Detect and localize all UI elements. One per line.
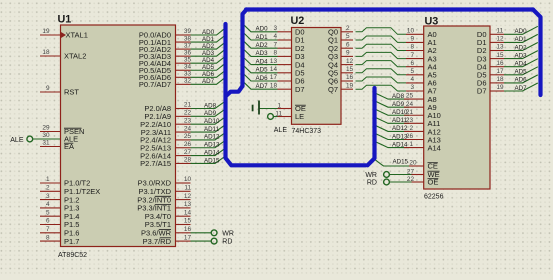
wire net AD10 from U1 P2.2 to bus [191,117,226,125]
wire U2 Q7 to U3 A7 [356,85,407,91]
svg-text:AD4: AD4 [256,58,269,65]
wire net AD11 from bus to U3 A11 [376,117,409,124]
bus segment right vertical at U3 data pins [533,10,541,96]
U3 pin 11 D0 [477,28,504,40]
U3 pin 4 A6 [406,76,437,88]
svg-text:4: 4 [410,76,414,83]
svg-text:14: 14 [184,209,192,216]
U3 pin 9 A1 [406,36,437,48]
U3 pin 6 A4 [406,60,437,72]
U2 pin 2 Q0 [328,25,353,37]
terminal ALE (node ALE) [10,136,32,144]
svg-text:18: 18 [42,49,50,56]
svg-text:5: 5 [46,209,50,216]
wire net AD6 from bus to U2 D6 [244,75,277,82]
U3 pin 1 A14 [404,141,441,152]
wire net AD0 from bus to U2 D0 [244,25,277,32]
svg-text:9: 9 [46,85,50,92]
U3 pin 12 D1 [477,36,504,48]
U1 pin 13 P3.3/INT1 [137,201,191,213]
U1 pin 35 P0.4/AD4 [139,56,192,68]
U1 pin 38 P0.1/AD1 [139,35,192,47]
U3 pin 20 CE [409,159,438,170]
svg-text:RD: RD [367,180,377,187]
U1 pin 10 P3.0/RXD [138,176,192,188]
wire net AD15 from U1 P2.7 to bus [191,156,226,164]
svg-text:5: 5 [346,33,350,40]
svg-text:7: 7 [273,41,277,48]
svg-text:62256: 62256 [424,194,444,201]
wire net AD0 from U1 P0.0 to bus [191,28,226,36]
U1 pin 4 P1.3 [40,201,79,213]
wire net AD13 from U1 P2.5 to bus [191,140,226,148]
U1 pin 37 P0.2/AD2 [139,42,192,54]
wire net AD5 from U1 P0.5 to bus [191,63,226,71]
svg-text:P0.7/AD7: P0.7/AD7 [139,80,171,89]
U3 part value 62256 [424,194,444,201]
U1 pin 1 P1.0/T2 [40,176,90,188]
wire net AD1 from bus to U2 D1 [244,34,277,41]
svg-text:AD6: AD6 [202,71,215,78]
svg-text:16: 16 [184,226,192,233]
svg-text:AD9: AD9 [204,110,217,117]
svg-text:25: 25 [406,93,414,100]
bus segment jog and lower left vertical at U1 P2 [227,86,243,96]
svg-text:AD0: AD0 [202,29,215,36]
U2 pin 6 Q2 [328,41,353,53]
wire net AD10 from bus to U3 A10 [376,109,409,116]
wire WR from U1 P3.6 to terminal [191,232,212,234]
svg-text:A14: A14 [428,143,441,152]
svg-text:21: 21 [406,109,414,116]
svg-text:30: 30 [42,132,50,139]
svg-text:9: 9 [346,50,350,57]
wire net AD4 from U3 D4 to bus [504,59,538,68]
U1 pin 18 XTAL2 [40,49,86,61]
U1 pin 22 P2.1/A9 [144,110,191,122]
U1 pin 5 P1.4 [40,209,79,221]
wire net AD4 from bus to U2 D4 [244,58,277,65]
U2 pin 14 D5 [270,66,305,78]
svg-text:P2.7/A15: P2.7/A15 [140,159,171,168]
svg-text:12: 12 [497,36,505,43]
svg-text:15: 15 [184,218,192,225]
wire RD terminal to U3 OE pin [389,181,411,183]
U3 pin 24 A9 [404,101,437,112]
svg-text:29: 29 [42,125,50,132]
svg-text:AD1: AD1 [256,34,269,41]
svg-text:3: 3 [273,25,277,32]
svg-text:38: 38 [184,35,192,42]
wire net AD5 from bus to U2 D5 [244,66,277,73]
svg-text:AD2: AD2 [515,44,528,51]
wire net AD3 from U3 D3 to bus [504,51,538,60]
svg-text:U1: U1 [58,14,72,26]
wire net AD6 from U3 D6 to bus [504,75,538,84]
svg-text:34: 34 [184,63,192,70]
svg-text:AD7: AD7 [515,85,528,92]
svg-text:AD1: AD1 [202,36,215,43]
svg-text:13: 13 [270,58,278,65]
U1 pin 34 P0.5/AD5 [139,63,192,75]
svg-text:AD10: AD10 [204,118,220,125]
wire net AD6 from U1 P0.6 to bus [191,70,226,78]
terminal RD at U3 OE [367,179,390,187]
svg-text:17: 17 [497,68,505,75]
svg-text:12: 12 [184,193,192,200]
IC U2 74HC373 body [292,28,342,125]
svg-text:1: 1 [46,176,50,183]
wire RD from U1 P3.7 to terminal [191,240,212,242]
svg-text:AD15: AD15 [393,159,409,166]
svg-text:RD: RD [222,239,232,246]
svg-text:AD12: AD12 [204,134,220,141]
wire net AD14 from bus to U3 A14 [376,141,409,148]
svg-text:22: 22 [407,176,415,183]
U2 pin 5 Q1 [328,33,353,45]
U2 pin 1 OE [277,103,305,114]
U1 pin 6 P1.5 [40,218,79,230]
wire net AD4 from U1 P0.4 to bus [191,56,226,64]
svg-text:AD4: AD4 [202,57,215,64]
svg-text:WR: WR [365,172,377,179]
U2 pin 17 D6 [270,74,305,86]
svg-text:25: 25 [184,133,192,140]
svg-text:23: 23 [184,117,192,124]
svg-text:19: 19 [42,28,50,35]
U2 pin 9 Q3 [328,50,353,62]
svg-text:18: 18 [270,82,278,89]
U3 reference label [425,16,439,28]
svg-text:AD3: AD3 [202,50,215,57]
svg-text:6: 6 [346,41,350,48]
svg-text:6: 6 [410,60,414,67]
U1 pin 24 P2.3/A11 [141,125,192,137]
wire net AD14 from U1 P2.6 to bus [191,148,226,156]
wire U2 Q3 to U3 A3 [356,52,407,58]
svg-text:7: 7 [46,226,50,233]
wire net AD8 from bus to U3 A8 [376,93,409,100]
wire U2 Q1 to U3 A1 [356,36,407,42]
svg-text:37: 37 [184,42,192,49]
svg-text:17: 17 [184,234,192,241]
svg-text:AD8: AD8 [392,93,405,100]
U3 pin 16 D4 [477,60,504,72]
svg-text:AD5: AD5 [515,69,528,76]
svg-text:AD14: AD14 [204,149,220,156]
wire net AD8 from U1 P2.0 to bus [191,101,226,109]
svg-text:8: 8 [46,234,50,241]
U3 pin 26 A13 [404,133,441,144]
U2 pin 7 D2 [273,41,304,53]
svg-text:14: 14 [270,66,278,73]
wire net AD13 from bus to U3 A13 [376,133,409,140]
wire U2 Q6 to U3 A6 [356,77,407,83]
svg-text:39: 39 [184,28,192,35]
U1 pin 11 P3.1/TXD [138,185,191,197]
U1 pin 17 P3.7/RD [143,234,192,246]
IC U3 62256 body [424,26,490,189]
U1 pin 28 P2.7/A15 [140,157,191,169]
svg-text:AD8: AD8 [204,102,217,109]
svg-text:AD4: AD4 [515,61,528,68]
U3 pin 10 A0 [406,28,437,40]
wire net AD9 from U1 P2.1 to bus [191,109,226,117]
U1 pin 15 P3.5/T1 [145,218,192,230]
svg-text:26: 26 [184,141,192,148]
svg-text:24: 24 [406,101,414,108]
svg-text:6: 6 [46,218,50,225]
U3 pin 19 D7 [477,84,504,96]
svg-text:ALE: ALE [10,137,24,144]
svg-text:RST: RST [64,88,79,97]
U1 pin 8 P1.7 [40,234,79,246]
U3 pin 2 A12 [404,125,441,136]
svg-text:27: 27 [407,168,415,175]
wire net AD1 from U1 P0.1 to bus [191,35,226,43]
U2 pin 18 D7 [270,82,305,94]
wire net AD12 from bus to U3 A12 [376,125,409,132]
wire net AD7 from U3 D7 to bus [504,83,538,92]
wire net AD5 from U3 D5 to bus [504,67,538,76]
svg-text:Q7: Q7 [328,85,338,94]
wire net AD9 from bus to U3 A9 [376,101,409,108]
U1 pin 21 P2.0/A8 [144,102,191,114]
U2 part value 74HC373 [292,128,322,135]
wire U2 Q0 to U3 A0 [356,28,407,35]
U1 pin 27 P2.6/A14 [140,149,191,161]
svg-text:4: 4 [46,201,50,208]
U2 pin 15 Q5 [328,66,354,78]
svg-text:AD0: AD0 [256,26,269,33]
svg-text:2: 2 [346,25,350,32]
svg-text:AD13: AD13 [204,142,220,149]
svg-text:8: 8 [273,50,277,57]
U1 pin 30 ALE [42,132,78,144]
svg-text:21: 21 [184,102,192,109]
U3 pin 8 A2 [406,44,437,56]
U3 pin 15 D3 [477,52,504,64]
svg-text:15: 15 [497,52,505,59]
U2 pin 19 Q7 [328,82,354,94]
svg-text:7: 7 [410,52,414,59]
U3 pin 21 A10 [404,109,441,120]
svg-text:20: 20 [409,159,417,166]
svg-text:AD3: AD3 [515,52,528,59]
U2 pin 16 Q6 [328,74,354,86]
svg-text:U2: U2 [291,15,305,27]
svg-text:D7: D7 [477,87,487,96]
svg-text:1: 1 [409,141,413,148]
svg-text:D7: D7 [295,85,305,94]
U1 pin 12 P3.2/INT0 [137,193,191,205]
svg-text:AD2: AD2 [256,42,269,49]
svg-text:16: 16 [497,60,505,67]
wire net AD2 from U3 D2 to bus [504,43,538,52]
svg-text:11: 11 [184,185,191,192]
U3 pin 25 A8 [404,93,437,104]
svg-text:11: 11 [497,28,504,35]
wire net AD3 from U1 P0.3 to bus [191,49,226,57]
svg-text:AD1: AD1 [515,36,528,43]
svg-text:XTAL2: XTAL2 [64,52,86,61]
svg-text:1: 1 [277,103,281,110]
svg-text:12: 12 [346,58,354,65]
U2 pin 3 D0 [273,25,304,37]
svg-text:15: 15 [346,66,354,73]
terminal ALE at U2 LE [268,114,288,134]
wire net AD1 from U3 D1 to bus [504,34,538,43]
U1 pin 16 P3.6/WR [141,226,191,238]
svg-text:32: 32 [184,78,192,85]
svg-text:24: 24 [184,125,192,132]
U1 pin 23 P2.2/A10 [140,117,191,128]
U3 pin 17 D5 [477,68,504,80]
svg-text:AD11: AD11 [204,126,220,133]
U1 pin 14 P3.4/T0 [145,209,192,221]
wire U2 Q5 to U3 A5 [356,69,407,75]
wire net AD0 from U3 D0 to bus [504,26,538,35]
U3 pin 27 WE [407,168,440,179]
svg-text:19: 19 [497,84,505,91]
bus segment left vertical at U1 P0 [243,10,247,87]
svg-text:2: 2 [46,185,50,192]
U3 pin 3 A7 [406,84,437,96]
svg-text:AD0: AD0 [515,28,528,35]
wire U2 Q2 to U3 A2 [356,44,407,50]
U2 pin 12 Q4 [328,58,354,70]
svg-text:8: 8 [410,44,414,51]
svg-text:AD7: AD7 [256,83,269,90]
svg-text:U3: U3 [425,16,439,28]
svg-text:AD5: AD5 [256,67,269,74]
svg-text:LE: LE [295,112,304,121]
svg-text:36: 36 [184,49,192,56]
svg-text:13: 13 [184,201,192,208]
wire WR terminal to U3 WE pin [389,174,411,176]
svg-text:19: 19 [346,82,354,89]
U2 pin 4 D1 [273,33,304,45]
svg-text:AD7: AD7 [202,78,215,85]
svg-text:74HC373: 74HC373 [292,128,322,135]
svg-text:3: 3 [46,193,50,200]
svg-text:11: 11 [275,111,282,118]
wire net AD12 from U1 P2.4 to bus [191,133,226,141]
U2 pin 8 D3 [273,50,304,62]
U3 pin 5 A5 [406,68,437,80]
U1 pin 36 P0.3/AD3 [139,49,192,61]
svg-text:28: 28 [184,157,192,164]
svg-text:XTAL1: XTAL1 [66,31,88,40]
terminal RD (node RD) [211,238,232,245]
U1 pin 7 P1.6 [40,226,79,238]
svg-text:AD3: AD3 [256,50,269,57]
svg-text:AD6: AD6 [256,75,269,82]
svg-text:AD5: AD5 [202,64,215,71]
svg-text:22: 22 [184,110,192,117]
svg-text:P1.7: P1.7 [64,237,79,246]
wire net AD7 from bus to U2 D7 [244,83,277,90]
IC U1 AT89C52 body [61,25,176,247]
U1 pin 2 P1.1/T2EX [40,185,100,197]
U3 pin 18 D6 [477,76,504,88]
svg-text:33: 33 [184,71,192,78]
wire net AD7 from U1 P0.7 to bus [191,77,226,85]
U2 reference label [291,15,305,27]
U1 pin 29 PSEN [40,125,84,137]
wire net AD3 from bus to U2 D3 [244,50,277,57]
wire ALE terminal to U2 LE pin [273,116,277,118]
svg-text:5: 5 [410,68,414,75]
svg-text:ALE: ALE [274,127,288,134]
wire net AD2 from bus to U2 D2 [244,42,277,49]
U1 pin 9 RST [40,85,79,97]
U1 pin 26 P2.5/A13 [140,141,191,153]
svg-text:10: 10 [407,28,415,35]
svg-text:16: 16 [346,74,354,81]
U1 pin 25 P2.4/A12 [140,133,191,145]
wire U2 Q4 to U3 A4 [356,61,407,67]
bus segment top horizontal AD0-AD7 [246,7,533,11]
svg-text:9: 9 [410,36,414,43]
svg-text:AD9: AD9 [392,101,405,108]
U2 pin 13 D4 [270,58,305,70]
ground [253,101,259,115]
svg-text:AD15: AD15 [204,157,220,164]
svg-text:2: 2 [409,125,413,132]
svg-text:WR: WR [222,230,234,237]
U1 pin 39 P0.0/AD0 [139,28,192,40]
U2 pin 11 LE [275,111,304,122]
U3 pin 7 A3 [406,52,437,64]
wire U2 OE pin to ground [260,108,278,110]
svg-text:26: 26 [406,133,414,140]
wire net AD2 from U1 P0.2 to bus [191,42,226,50]
U1 pin 19 XTAL1 [40,28,88,40]
svg-text:31: 31 [42,140,50,147]
U1 reference label [58,14,72,26]
terminal WR (node WR) [211,230,234,237]
U1 pin 3 P1.2 [40,193,79,205]
bus segment riser to U3 address pins [368,88,375,165]
svg-text:AD2: AD2 [202,43,215,50]
svg-text:AD6: AD6 [515,77,528,84]
svg-text:4: 4 [273,33,277,40]
svg-text:10: 10 [184,176,192,183]
svg-text:18: 18 [497,76,505,83]
svg-text:3: 3 [410,84,414,91]
U1 part value AT89C52 [58,252,87,259]
bus segment bottom horizontal [226,24,366,165]
U1 pin 33 P0.6/AD6 [139,71,192,83]
U1 pin 31 EA [40,140,74,152]
svg-text:AT89C52: AT89C52 [58,252,87,259]
wire ALE terminal to U1 ALE pin [33,138,61,140]
U3 pin 23 A11 [404,117,440,128]
wire net AD15 from bus to U3 CE pin 20 [375,159,409,166]
U3 pin 13 D2 [477,44,504,56]
U1 pin 32 P0.7/AD7 [139,78,192,90]
svg-text:17: 17 [270,74,278,81]
svg-text:13: 13 [497,44,505,51]
wire net AD11 from U1 P2.3 to bus [191,125,226,133]
svg-text:35: 35 [184,56,192,63]
svg-text:27: 27 [184,149,192,156]
svg-text:23: 23 [406,117,414,124]
terminal WR at U3 WE [365,172,389,180]
U3 pin 22 OE [407,176,438,187]
